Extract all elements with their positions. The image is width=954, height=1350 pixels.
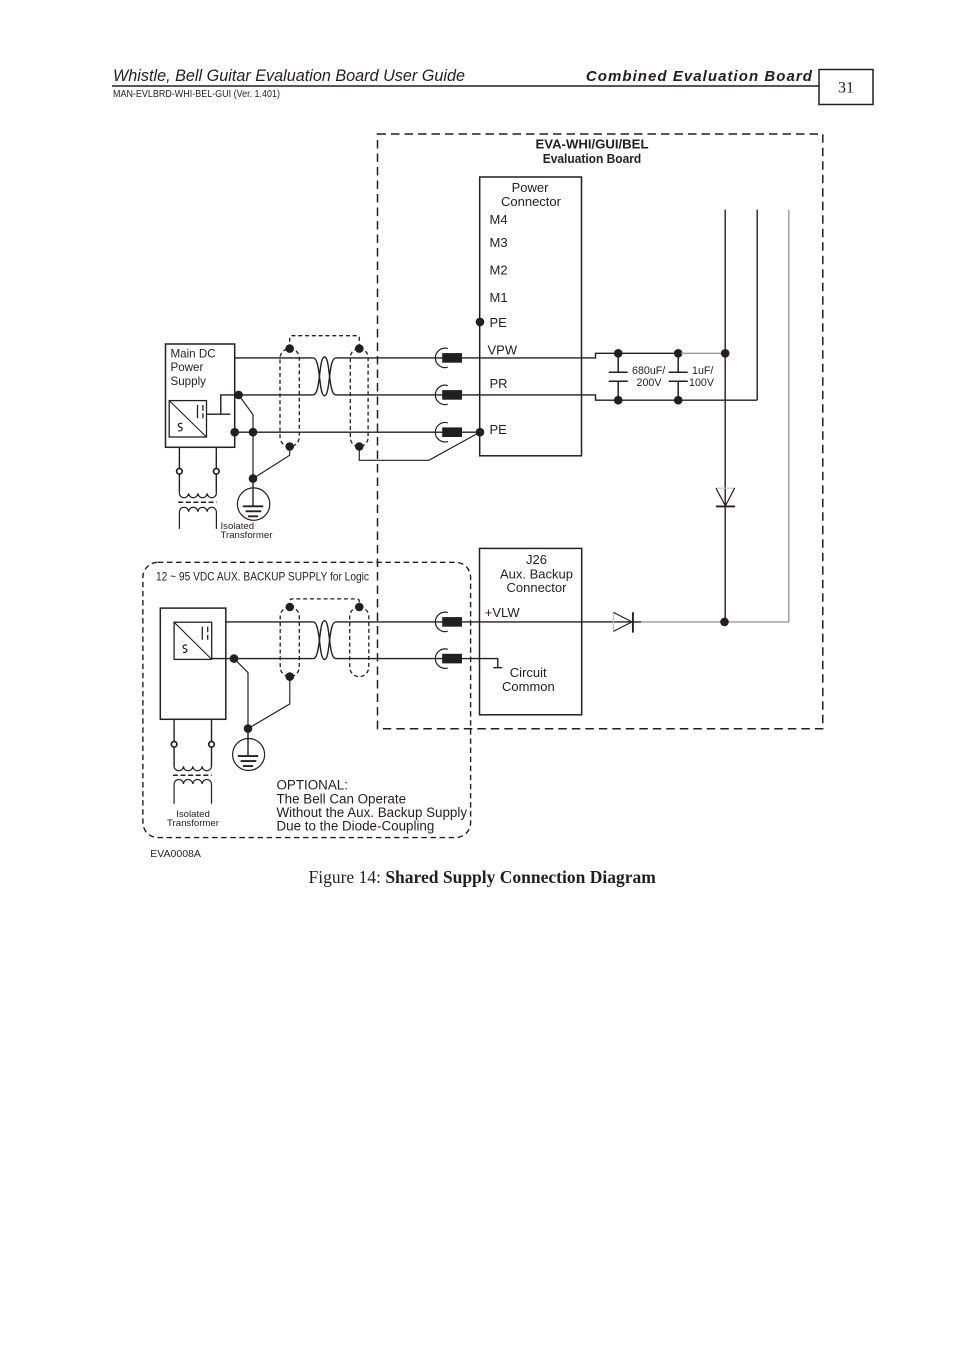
header rule <box>112 85 819 87</box>
junction dot on PE wire <box>249 428 258 437</box>
wire grey VPW to bus <box>681 352 722 354</box>
svg-text:Evaluation Board: Evaluation Board <box>543 151 642 166</box>
cable shield oval right upper <box>350 349 368 447</box>
twisted pair upper wire B <box>313 357 335 395</box>
svg-text:Transformer: Transformer <box>221 530 274 541</box>
shield bridge dashed lower <box>290 599 360 607</box>
earth ground symbol upper <box>237 488 269 520</box>
J26 aux backup connector box <box>480 548 582 714</box>
isolated transformer upper primary winding <box>179 493 216 498</box>
isolated transformer upper core <box>178 501 217 503</box>
svg-text:M1: M1 <box>490 290 508 305</box>
svg-text:31: 31 <box>838 80 854 97</box>
diode D1 <box>716 487 735 489</box>
bus wire PR vertical <box>756 210 758 400</box>
svg-text:Combined Evaluation Board: Combined Evaluation Board <box>586 68 813 85</box>
aux transformer terminal right <box>211 719 213 766</box>
converter output stub wire <box>207 395 239 414</box>
cable shield oval left upper <box>280 349 299 447</box>
svg-text:1uF/: 1uF/ <box>692 365 713 377</box>
svg-text:200V: 200V <box>637 377 663 389</box>
isolated transformer lower primary winding <box>174 766 211 771</box>
AC-DC converter symbol U2 <box>174 622 212 659</box>
svg-text:100V: 100V <box>689 377 715 389</box>
junction dot PR output <box>234 391 243 400</box>
svg-text:Supply: Supply <box>171 375 207 388</box>
shield bridge dashed upper <box>290 336 360 349</box>
svg-text:J26: J26 <box>526 552 547 567</box>
pin dot PE lower <box>476 428 485 437</box>
main transformer terminal right <box>215 447 217 492</box>
svg-text:Whistle, Bell Guitar Evaluatio: Whistle, Bell Guitar Evaluation Board Us… <box>113 67 465 85</box>
twisted pair lower wire B <box>313 621 335 659</box>
wire PE from supply to connector pin <box>235 431 480 433</box>
power connector J box <box>480 177 582 456</box>
wire VPW from supply to twisted pair <box>235 357 314 359</box>
isolated transformer lower secondary winding <box>174 780 211 804</box>
aux DC supply box <box>160 608 226 719</box>
svg-text:Due to the Diode-Coupling: Due to the Diode-Coupling <box>277 819 435 834</box>
capacitor C2 1uF/100V <box>669 353 688 400</box>
svg-text:PR: PR <box>490 376 508 391</box>
shield dot left-bottom upper <box>285 442 294 451</box>
svg-text:EVA0008A: EVA0008A <box>150 848 201 860</box>
svg-text:Connector: Connector <box>507 580 568 595</box>
aux transformer terminal left <box>173 719 175 766</box>
svg-text:Connector: Connector <box>501 194 562 209</box>
junction dot PE at supply edge <box>230 428 239 437</box>
svg-text:M2: M2 <box>490 263 508 278</box>
bus wire VLW grey <box>641 210 789 622</box>
junction dot VLW bus <box>720 618 729 627</box>
wire +VLW from aux supply <box>226 621 314 623</box>
wire shield drain left upper <box>253 447 290 479</box>
isolated transformer lower core <box>173 774 212 776</box>
ferrite bead on +VLW <box>435 612 447 631</box>
junction dot ground node lower <box>244 724 253 733</box>
svg-text:Main DC: Main DC <box>171 347 216 360</box>
wire shield drain right to PE <box>359 432 479 460</box>
shield dot left-top lower <box>286 603 295 612</box>
svg-text:12 ~ 95 VDC AUX. BACKUP SUPPLY: 12 ~ 95 VDC AUX. BACKUP SUPPLY for Logic <box>156 569 369 583</box>
wire common from aux supply <box>212 658 314 660</box>
aux backup supply dashed boundary <box>143 562 471 837</box>
shield dot right-top upper <box>355 344 364 353</box>
diode D2 <box>612 612 614 631</box>
isolated transformer upper secondary winding <box>179 507 216 529</box>
svg-text:Circuit: Circuit <box>510 665 547 680</box>
svg-text:PE: PE <box>490 315 508 330</box>
junction dot C2 top <box>674 349 683 358</box>
earth ground symbol lower <box>233 739 265 771</box>
junction dot C1 top <box>614 349 623 358</box>
junction dot VPW bus <box>721 349 730 358</box>
capacitor C1 680uF/200V <box>609 353 628 400</box>
cable shield oval right lower <box>350 607 369 677</box>
junction dot C2 bottom <box>674 396 683 405</box>
shield dot right-top lower <box>355 603 364 612</box>
junction dot C1 bottom <box>614 396 623 405</box>
wire PR to ground node <box>239 395 253 479</box>
pin dot PE upper <box>476 318 485 327</box>
ferrite bead on common <box>435 649 447 668</box>
svg-text:EVA-WHI/GUI/BEL: EVA-WHI/GUI/BEL <box>536 137 649 152</box>
wire PR from twisted pair to connector <box>336 395 758 400</box>
wire PR from supply to twisted pair <box>235 394 314 396</box>
svg-text:Common: Common <box>502 679 555 694</box>
shield dot left-bottom lower <box>286 672 295 681</box>
main DC power supply box <box>166 344 235 447</box>
svg-text:MAN-EVLBRD-WHI-BEL-GUI (Ver. 1: MAN-EVLBRD-WHI-BEL-GUI (Ver. 1.401) <box>113 89 280 100</box>
evaluation board dashed boundary <box>378 134 823 729</box>
wire shield drain lower <box>248 677 290 729</box>
twisted pair lower wire A <box>313 622 335 660</box>
svg-text:Power: Power <box>512 180 550 195</box>
svg-text:M4: M4 <box>490 212 508 227</box>
svg-text:Figure 14: Shared Supply Conne: Figure 14: Shared Supply Connection Diag… <box>309 867 657 887</box>
page number box 31 <box>819 70 873 105</box>
ferrite bead on PR <box>435 385 447 404</box>
wire common to ground node <box>234 659 248 729</box>
junction dot ground node upper <box>249 474 258 483</box>
svg-text:+VLW: +VLW <box>485 605 521 620</box>
svg-text:680uF/: 680uF/ <box>632 365 665 377</box>
twisted pair upper wire A <box>313 358 335 396</box>
wire VPW from twisted pair to connector <box>336 353 683 358</box>
shield dot right-bottom upper <box>355 442 364 451</box>
cable shield oval left lower <box>280 607 299 677</box>
svg-text:M3: M3 <box>490 235 508 250</box>
svg-text:Transformer: Transformer <box>167 818 220 829</box>
ferrite bead on VPW <box>435 348 447 367</box>
wire +VLW to diode <box>336 621 641 623</box>
shield dot left-top upper <box>285 344 294 353</box>
AC-DC converter symbol U1 <box>169 401 206 437</box>
svg-text:Aux. Backup: Aux. Backup <box>500 566 573 581</box>
bus wire VPW vertical <box>724 210 726 622</box>
svg-text:Power: Power <box>171 361 204 374</box>
svg-text:VPW: VPW <box>488 342 518 357</box>
wire common to J26 <box>336 659 503 668</box>
main transformer terminal left <box>178 447 180 492</box>
ferrite bead on PE <box>435 423 447 442</box>
svg-text:PE: PE <box>490 422 508 437</box>
junction dot common <box>230 654 239 663</box>
